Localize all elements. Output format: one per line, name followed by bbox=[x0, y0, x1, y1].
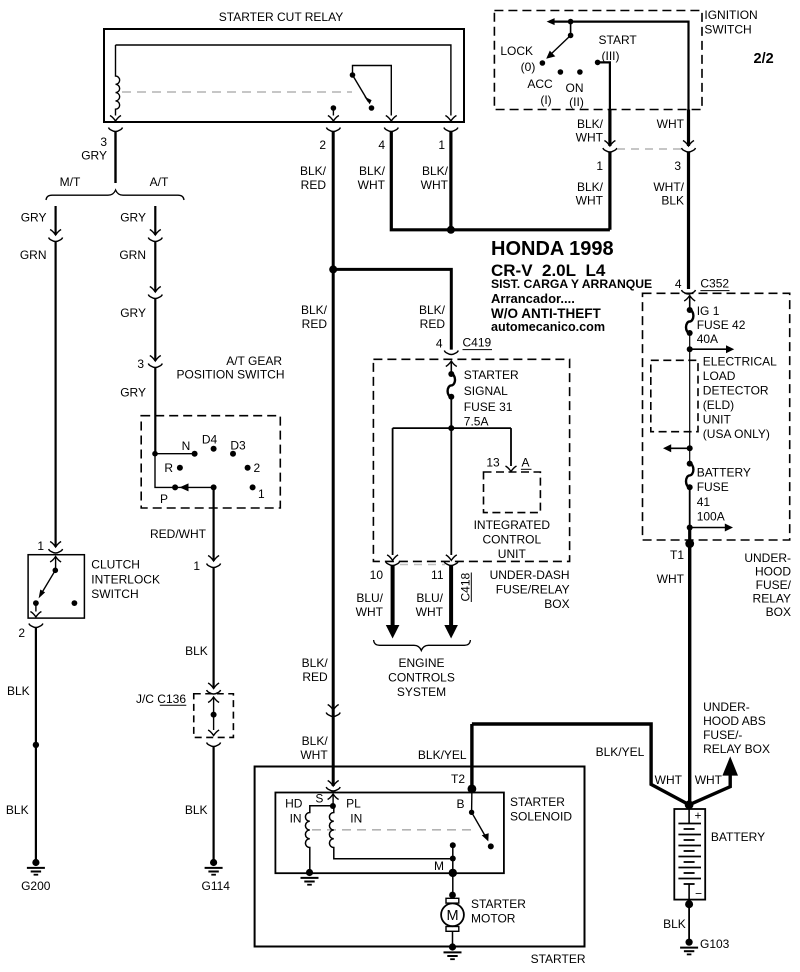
wire A/T GRY 2 bbox=[120, 299, 155, 362]
connector A/T box out bbox=[207, 556, 221, 568]
solenoid HD coil bbox=[285, 797, 333, 873]
svg-text:HONDA 1998: HONDA 1998 bbox=[491, 238, 614, 260]
svg-text:FUSE/: FUSE/ bbox=[756, 578, 792, 592]
starter assembly box bbox=[255, 767, 586, 967]
svg-text:STARTER: STARTER bbox=[531, 952, 586, 966]
integrated control unit bbox=[474, 472, 551, 561]
wire to ICU pin 13 A bbox=[486, 428, 531, 471]
under-dash fuse/relay box bbox=[373, 359, 569, 611]
svg-text:STARTER CUT RELAY: STARTER CUT RELAY bbox=[219, 10, 343, 24]
svg-text:HOOD ABS: HOOD ABS bbox=[703, 714, 766, 728]
connector 10 bbox=[356, 562, 400, 620]
wire BLK/WHT bus pins 4-1 bbox=[391, 132, 610, 234]
svg-text:4: 4 bbox=[378, 138, 385, 152]
svg-text:BLK: BLK bbox=[185, 803, 208, 817]
svg-text:FUSE 31: FUSE 31 bbox=[464, 400, 513, 414]
wire A/T GRN bbox=[119, 242, 155, 293]
svg-text:INTERLOCK: INTERLOCK bbox=[91, 573, 160, 587]
ignition ON contact bbox=[566, 69, 584, 109]
svg-text:1: 1 bbox=[258, 487, 265, 501]
svg-text:(III): (III) bbox=[602, 49, 620, 63]
svg-text:STARTER: STARTER bbox=[471, 897, 526, 911]
svg-text:SIGNAL: SIGNAL bbox=[464, 384, 508, 398]
svg-text:RED: RED bbox=[420, 317, 446, 331]
ignition switch box bbox=[494, 8, 757, 110]
relay internal wire coil to pin 1 bbox=[116, 45, 457, 121]
ground G103 bbox=[680, 937, 730, 954]
wire ignition pin 1 BLK/WHT bbox=[576, 110, 610, 147]
wire ignition pin 3 WHT bbox=[657, 110, 689, 147]
connector ignition 1 bbox=[596, 141, 617, 174]
wire GRY from pin 3 bbox=[114, 132, 116, 184]
connector M/T bbox=[49, 230, 63, 242]
svg-text:T2: T2 bbox=[451, 772, 465, 786]
svg-text:S: S bbox=[315, 792, 323, 806]
terminal T1 bbox=[670, 528, 694, 563]
svg-text:WHT: WHT bbox=[657, 117, 685, 131]
svg-text:WHT: WHT bbox=[300, 748, 328, 762]
svg-text:2: 2 bbox=[18, 626, 25, 640]
ground starter motor bbox=[444, 943, 462, 959]
svg-text:UNDER-DASH: UNDER-DASH bbox=[490, 568, 570, 582]
wire WHT/BLK to C352 bbox=[653, 152, 688, 289]
svg-text:(ELD): (ELD) bbox=[703, 398, 734, 412]
tap arrow left battery fuse node bbox=[663, 444, 693, 452]
svg-text:POSITION SWITCH: POSITION SWITCH bbox=[177, 368, 285, 382]
svg-text:GRY: GRY bbox=[21, 211, 47, 225]
svg-text:BLK/: BLK/ bbox=[422, 164, 449, 178]
svg-text:IN: IN bbox=[290, 812, 302, 826]
svg-text:WHT: WHT bbox=[576, 131, 604, 145]
svg-text:(I): (I) bbox=[540, 93, 551, 107]
wire BLK to G200 bbox=[6, 628, 39, 863]
svg-text:BLK: BLK bbox=[185, 644, 208, 658]
svg-text:BOX: BOX bbox=[544, 597, 569, 611]
connector A/T 1 bbox=[148, 230, 162, 242]
svg-text:UNDER-: UNDER- bbox=[744, 551, 791, 565]
svg-text:Arrancador....: Arrancador.... bbox=[491, 291, 575, 306]
svg-text:M: M bbox=[446, 908, 458, 924]
svg-text:SYSTEM: SYSTEM bbox=[397, 685, 446, 699]
svg-text:40A: 40A bbox=[697, 332, 718, 346]
svg-text:BLK/: BLK/ bbox=[577, 180, 604, 194]
svg-text:RED: RED bbox=[302, 670, 328, 684]
wire BLK/RED labels mid bbox=[302, 656, 329, 684]
svg-text:WHT: WHT bbox=[416, 605, 444, 619]
electrical load detector ELD bbox=[651, 349, 777, 448]
svg-text:DETECTOR: DETECTOR bbox=[703, 384, 769, 398]
svg-text:ACC: ACC bbox=[527, 77, 553, 91]
relay switch bbox=[350, 66, 397, 122]
svg-text:GRN: GRN bbox=[119, 248, 146, 262]
wire M/T GRY bbox=[21, 206, 56, 235]
svg-text:GRN: GRN bbox=[20, 248, 47, 262]
svg-text:M: M bbox=[434, 859, 444, 873]
svg-text:BLK/YEL: BLK/YEL bbox=[418, 748, 467, 762]
svg-text:WHT: WHT bbox=[358, 178, 386, 192]
svg-text:MOTOR: MOTOR bbox=[471, 912, 516, 926]
svg-text:M/T: M/T bbox=[60, 175, 81, 189]
svg-text:G103: G103 bbox=[700, 937, 730, 951]
connector A/T 2 bbox=[148, 287, 162, 299]
brace engine controls bbox=[374, 640, 471, 699]
svg-text:2: 2 bbox=[254, 461, 261, 475]
connector BLK/RED to BLK/WHT bbox=[326, 705, 340, 717]
fuse 42 IG 1 bbox=[684, 296, 746, 347]
svg-text:WHT: WHT bbox=[356, 605, 384, 619]
connector relay pin 4 bbox=[358, 128, 399, 193]
svg-text:A/T: A/T bbox=[150, 175, 169, 189]
svg-text:RED: RED bbox=[301, 178, 327, 192]
relay STARTER CUT RELAY bbox=[104, 10, 464, 122]
tap arrow right T1 node bbox=[687, 487, 733, 531]
svg-text:13: 13 bbox=[486, 456, 500, 470]
svg-text:−: − bbox=[695, 887, 702, 901]
svg-text:SWITCH: SWITCH bbox=[704, 23, 751, 37]
svg-text:N: N bbox=[182, 439, 191, 453]
svg-text:RED/WHT: RED/WHT bbox=[150, 527, 207, 541]
svg-text:BLK/: BLK/ bbox=[419, 303, 446, 317]
under-dash internal bus bbox=[387, 425, 511, 560]
brace M/T A/T bbox=[46, 175, 184, 200]
solenoid terminal S bbox=[315, 792, 338, 810]
connector J/C in bbox=[207, 683, 221, 694]
HONDA title block bbox=[491, 238, 652, 334]
svg-text:BLU/: BLU/ bbox=[356, 591, 383, 605]
svg-text:C352: C352 bbox=[700, 277, 729, 291]
under-hood fuse/relay box bbox=[643, 293, 792, 619]
ignition ACC contact bbox=[527, 69, 563, 107]
ignition LOCK contact bbox=[500, 44, 545, 74]
svg-text:J/C C136: J/C C136 bbox=[136, 692, 186, 706]
svg-text:CONTROL: CONTROL bbox=[482, 533, 541, 547]
wire A/T GRY bbox=[120, 206, 155, 235]
svg-text:G114: G114 bbox=[202, 879, 231, 893]
svg-text:BLK/: BLK/ bbox=[577, 117, 604, 131]
svg-text:(0): (0) bbox=[521, 60, 536, 74]
starter motor bbox=[441, 892, 526, 947]
svg-text:C419: C419 bbox=[463, 336, 492, 350]
svg-text:BLK: BLK bbox=[663, 917, 686, 931]
svg-text:BLK/: BLK/ bbox=[302, 734, 329, 748]
svg-text:HD: HD bbox=[285, 797, 303, 811]
svg-text:2/2: 2/2 bbox=[754, 51, 774, 67]
wire BLK/RED pin 2 bbox=[301, 132, 337, 787]
fuse 31 starter signal bbox=[446, 361, 519, 429]
junction connector J/C C136 bbox=[136, 692, 233, 737]
svg-text:+: + bbox=[695, 809, 702, 823]
relay actuation dashed link bbox=[122, 91, 352, 93]
svg-text:SOLENOID: SOLENOID bbox=[510, 810, 572, 824]
solenoid dashed link bbox=[312, 829, 477, 831]
svg-text:BLK/YEL: BLK/YEL bbox=[596, 745, 645, 759]
svg-text:WHT: WHT bbox=[576, 194, 604, 208]
svg-text:4: 4 bbox=[675, 277, 682, 291]
svg-text:UNIT: UNIT bbox=[703, 413, 732, 427]
connector link dashed 10-11 bbox=[400, 564, 445, 566]
svg-text:SWITCH: SWITCH bbox=[91, 587, 138, 601]
svg-text:GRY: GRY bbox=[120, 211, 146, 225]
svg-text:BLK/: BLK/ bbox=[301, 303, 328, 317]
svg-text:FUSE/RELAY: FUSE/RELAY bbox=[496, 583, 570, 597]
svg-text:1: 1 bbox=[438, 138, 445, 152]
svg-text:1: 1 bbox=[193, 559, 200, 573]
svg-text:BLU/: BLU/ bbox=[416, 591, 443, 605]
ground G114 bbox=[202, 859, 231, 893]
svg-text:11: 11 bbox=[431, 568, 444, 582]
svg-text:1: 1 bbox=[596, 159, 603, 173]
svg-text:SIST. CARGA Y ARRANQUE: SIST. CARGA Y ARRANQUE bbox=[491, 277, 652, 291]
svg-text:D4: D4 bbox=[202, 433, 218, 447]
svg-text:STARTER: STARTER bbox=[464, 368, 519, 382]
terminal T2 bbox=[451, 724, 476, 793]
fuse 41 battery bbox=[686, 448, 751, 523]
svg-text:BLK/: BLK/ bbox=[359, 164, 386, 178]
svg-text:BOX: BOX bbox=[766, 605, 791, 619]
svg-text:UNIT: UNIT bbox=[498, 547, 527, 561]
svg-text:LOCK: LOCK bbox=[500, 44, 533, 58]
A/T gear position switch bbox=[141, 354, 284, 561]
svg-text:10: 10 bbox=[370, 568, 384, 582]
connector link dashed bbox=[617, 148, 682, 150]
svg-text:BLK: BLK bbox=[7, 684, 30, 698]
svg-text:(II): (II) bbox=[569, 95, 584, 109]
connector relay pin 1 bbox=[421, 128, 458, 193]
svg-text:IN: IN bbox=[350, 812, 362, 826]
wire BLK to J/C bbox=[185, 568, 213, 689]
svg-text:BLK: BLK bbox=[6, 803, 29, 817]
svg-text:RELAY BOX: RELAY BOX bbox=[703, 742, 770, 756]
connector A/T pin 3 bbox=[137, 356, 162, 372]
svg-text:ELECTRICAL: ELECTRICAL bbox=[703, 355, 777, 369]
tap arrow right after fuse 42 bbox=[687, 333, 735, 353]
svg-text:WHT: WHT bbox=[657, 572, 685, 586]
svg-text:LOAD: LOAD bbox=[703, 369, 736, 383]
ignition common wire bbox=[547, 18, 689, 109]
svg-text:3: 3 bbox=[100, 135, 107, 149]
connector clutch pin 2 bbox=[18, 624, 43, 641]
wire WHT to under-hood ABS bbox=[689, 700, 770, 805]
svg-text:automecanico.com: automecanico.com bbox=[491, 320, 605, 334]
svg-text:BATTERY: BATTERY bbox=[711, 830, 765, 844]
svg-text:100A: 100A bbox=[697, 510, 725, 524]
svg-text:ENGINE: ENGINE bbox=[398, 656, 444, 670]
svg-text:PL: PL bbox=[346, 797, 361, 811]
connector ignition 3 bbox=[674, 141, 695, 174]
wire BLU/WHT 10 to engine controls bbox=[386, 566, 400, 639]
wire BLK/WHT labels bbox=[300, 734, 328, 762]
svg-text:BLK/: BLK/ bbox=[302, 656, 329, 670]
wire RED/WHT bbox=[150, 527, 207, 573]
starter solenoid box bbox=[275, 793, 572, 874]
svg-text:WHT: WHT bbox=[421, 178, 449, 192]
ignition START contact bbox=[595, 33, 638, 110]
svg-text:3: 3 bbox=[137, 357, 144, 371]
svg-text:A/T GEAR: A/T GEAR bbox=[226, 354, 282, 368]
svg-text:1: 1 bbox=[37, 539, 44, 553]
wire WHT T1 to battery bbox=[657, 544, 690, 805]
svg-text:A: A bbox=[522, 456, 530, 470]
svg-text:C418: C418 bbox=[459, 572, 473, 601]
svg-text:GRY: GRY bbox=[81, 149, 107, 163]
connector relay pin 2 bbox=[300, 128, 340, 193]
ignition rotor arm bbox=[546, 23, 573, 59]
connector 4 C352 bbox=[675, 277, 730, 295]
ground solenoid HD bbox=[301, 869, 319, 885]
connector clutch pin 1 bbox=[49, 542, 63, 554]
svg-text:INTEGRATED: INTEGRATED bbox=[474, 518, 551, 532]
svg-text:41: 41 bbox=[697, 495, 711, 509]
svg-text:RED: RED bbox=[302, 317, 328, 331]
svg-text:IG 1: IG 1 bbox=[697, 304, 720, 318]
svg-text:D3: D3 bbox=[230, 439, 246, 453]
wire BLK/YEL from solenoid T2 bbox=[418, 724, 689, 805]
svg-text:GRY: GRY bbox=[120, 386, 146, 400]
svg-text:GRY: GRY bbox=[120, 306, 146, 320]
svg-text:WHT: WHT bbox=[655, 773, 683, 787]
svg-text:CLUTCH: CLUTCH bbox=[91, 558, 140, 572]
svg-text:WHT/: WHT/ bbox=[653, 180, 684, 194]
svg-text:R: R bbox=[164, 461, 173, 475]
wire BLK to G114 bbox=[185, 747, 214, 863]
wire BLU/WHT 11 to engine controls bbox=[444, 566, 458, 639]
connector 4 C419 bbox=[436, 336, 492, 355]
svg-text:RELAY: RELAY bbox=[753, 592, 791, 606]
svg-text:FUSE: FUSE bbox=[697, 480, 729, 494]
relay contact to pin 2 bbox=[328, 105, 339, 121]
svg-text:UNDER-: UNDER- bbox=[703, 700, 750, 714]
svg-text:(USA ONLY): (USA ONLY) bbox=[703, 427, 770, 441]
svg-text:W/O ANTI-THEFT: W/O ANTI-THEFT bbox=[491, 306, 601, 321]
svg-text:START: START bbox=[599, 33, 638, 47]
wire branch BLK/RED to C419 bbox=[333, 269, 451, 349]
relay coil bbox=[110, 45, 121, 121]
svg-text:BLK/: BLK/ bbox=[300, 164, 327, 178]
svg-text:7.5A: 7.5A bbox=[464, 415, 489, 429]
wire A/T GRY 3 bbox=[120, 368, 155, 454]
connector 11 C418 bbox=[416, 562, 473, 620]
svg-text:T1: T1 bbox=[670, 548, 684, 562]
svg-text:WHT: WHT bbox=[695, 773, 723, 787]
svg-text:BLK: BLK bbox=[661, 194, 684, 208]
svg-text:3: 3 bbox=[674, 159, 681, 173]
battery bbox=[674, 800, 765, 908]
svg-text:FUSE/-: FUSE/- bbox=[703, 728, 742, 742]
svg-text:2: 2 bbox=[319, 138, 326, 152]
svg-text:CONTROLS: CONTROLS bbox=[388, 671, 455, 685]
svg-text:STARTER: STARTER bbox=[510, 795, 565, 809]
solenoid contact M node bbox=[434, 842, 457, 895]
svg-text:G200: G200 bbox=[21, 879, 51, 893]
ground G200 bbox=[21, 859, 51, 893]
solenoid contact B bbox=[456, 789, 493, 850]
svg-text:IGNITION: IGNITION bbox=[704, 8, 757, 22]
wire M/T GRN bbox=[20, 242, 56, 554]
connector solenoid S in bbox=[326, 781, 340, 792]
clutch interlock switch bbox=[28, 555, 160, 618]
wire BLK battery to G103 bbox=[663, 904, 689, 942]
svg-text:P: P bbox=[160, 492, 168, 506]
svg-text:BATTERY: BATTERY bbox=[697, 466, 751, 480]
svg-text:ON: ON bbox=[566, 81, 584, 95]
wire BLK/WHT down from ignition bbox=[576, 152, 610, 230]
connector J/C out bbox=[207, 743, 221, 747]
svg-text:FUSE 42: FUSE 42 bbox=[697, 318, 746, 332]
svg-text:4: 4 bbox=[436, 337, 443, 351]
solenoid PL coil bbox=[329, 797, 452, 859]
svg-text:HOOD: HOOD bbox=[755, 565, 791, 579]
svg-text:B: B bbox=[456, 797, 464, 811]
connector relay pin 3 bbox=[81, 128, 122, 163]
